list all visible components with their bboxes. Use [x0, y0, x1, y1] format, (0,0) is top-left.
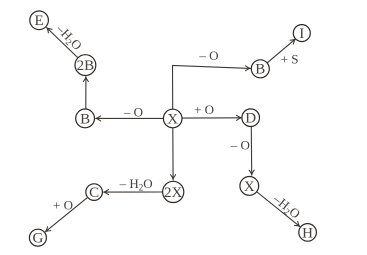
wire arrow X (bottom right) to H with -H2O: [257, 192, 300, 226]
node 2B: [75, 55, 96, 76]
svg-text:D: D: [245, 111, 256, 127]
svg-text:– O: – O: [198, 48, 218, 63]
wire arrow 2B to E with -H2O: [47, 28, 78, 58]
svg-text:+ O: + O: [53, 197, 73, 212]
svg-text:X: X: [167, 111, 178, 127]
wire arrow B to 2B: [85, 77, 87, 109]
svg-text:+ O: + O: [194, 102, 214, 117]
svg-text:– H2O: – H2O: [119, 176, 153, 193]
svg-text:2B: 2B: [77, 58, 95, 74]
wire arrow X to B (left): [96, 117, 164, 119]
svg-text:G: G: [32, 231, 43, 247]
svg-text:E: E: [35, 13, 44, 29]
node 2X: [163, 181, 184, 202]
wire arrow 2X to C with -H2O: [104, 191, 162, 193]
node E: [30, 11, 49, 30]
node B left: [76, 109, 95, 128]
wire arrow B (top right) to I with +S: [267, 39, 295, 63]
svg-text:+ S: + S: [281, 52, 299, 67]
svg-text:H: H: [302, 225, 313, 241]
svg-text:– O: – O: [230, 138, 250, 153]
node I: [293, 25, 310, 42]
svg-text:X: X: [244, 179, 255, 195]
svg-text:I: I: [299, 26, 304, 42]
node G: [29, 229, 46, 246]
svg-text:–H2O: –H2O: [269, 191, 303, 223]
node B top right: [251, 60, 269, 78]
wire arrow X up and right to B (top right) with -O: [173, 66, 251, 110]
wire arrow X down to 2X: [172, 128, 174, 180]
svg-text:– O: – O: [123, 104, 143, 119]
wire arrow D down to X (bottom right) with -O: [250, 127, 252, 175]
node H: [299, 224, 317, 242]
wire arrow C to G with +O: [46, 198, 88, 232]
svg-text:B: B: [80, 111, 90, 127]
node X bottom right: [240, 177, 259, 196]
svg-text:B: B: [255, 62, 265, 78]
svg-text:2X: 2X: [164, 185, 183, 201]
label -H2O (rotated, X to H): [269, 191, 303, 223]
node C: [86, 184, 103, 201]
wire arrow X to D with +O: [182, 117, 241, 119]
label -H2O (rotated, 2B to E): [52, 20, 85, 54]
node D: [242, 109, 260, 127]
node X center: [163, 109, 182, 128]
svg-text:C: C: [89, 185, 99, 201]
